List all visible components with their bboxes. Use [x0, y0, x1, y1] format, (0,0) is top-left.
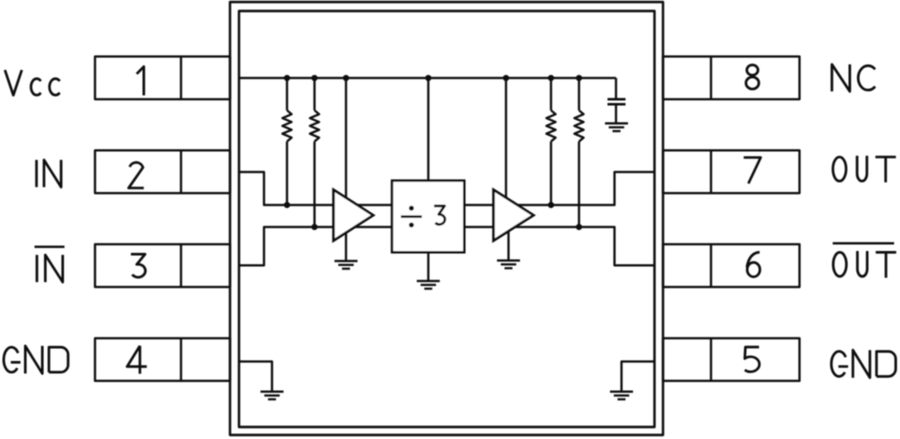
junction Vcc rail at R4 — [576, 75, 582, 81]
junction Vcc rail at R3 — [548, 75, 554, 81]
pin 7 box — [663, 150, 800, 193]
pin 2 number — [129, 162, 144, 188]
junction Vcc rail at buffer U2 — [503, 75, 509, 81]
pin 6 number — [747, 252, 760, 277]
pin 4 box — [95, 338, 230, 381]
label OUT — [833, 156, 896, 183]
wire buffer1 supply-ground drop — [345, 78, 347, 261]
wire OUT-bar path to pin 6 — [464, 227, 654, 265]
junction Vcc rail at R2 — [311, 75, 317, 81]
ground below buffer U1 — [335, 261, 358, 269]
junction Vcc rail at R1 — [284, 75, 290, 81]
ground at pin 5 — [610, 392, 633, 400]
IC package inner outline — [239, 11, 655, 427]
resistor R2 — [310, 78, 319, 227]
resistor R4 — [574, 78, 583, 227]
wire buffer2 supply drop — [505, 78, 507, 216]
junction R2 to IN-bar wire — [311, 224, 317, 230]
pin 7 number — [744, 158, 761, 184]
wire divider top drop — [427, 78, 429, 181]
junction Vcc rail at buffer U1 — [343, 75, 349, 81]
wire pin 5 ground path — [622, 362, 655, 392]
divide-by-3 block U3 — [392, 181, 464, 253]
divide sign — [401, 206, 422, 228]
ground below divider — [417, 281, 440, 289]
ground below buffer U2 — [497, 261, 520, 269]
capacitor C1 — [608, 78, 626, 123]
resistor R3 — [546, 78, 555, 205]
ground at pin 4 — [261, 392, 284, 400]
junction R3 to OUT wire — [548, 202, 554, 208]
label Vcc — [5, 70, 60, 95]
junction R4 to OUT-bar wire — [576, 224, 582, 230]
pin 8 number — [746, 65, 759, 89]
wire pin 4 ground path — [239, 362, 272, 392]
buffer U1 (input buffer triangle) — [334, 190, 374, 241]
label IN-bar — [35, 247, 65, 282]
pin 1 box — [95, 57, 230, 100]
pin 1 number — [137, 67, 144, 96]
label GND left — [4, 346, 68, 374]
wire divider bottom lead — [427, 252, 429, 281]
divide-by-3 value 3 — [434, 206, 445, 224]
wire IN path from pin 2 — [239, 172, 392, 205]
buffer U2 (output buffer triangle) — [494, 190, 534, 241]
pin 5 number — [745, 347, 760, 372]
resistor R1 — [282, 78, 291, 205]
pin 3 number — [131, 254, 146, 277]
pin 5 box — [663, 338, 800, 381]
wire Vcc rail from pin 1 — [239, 77, 616, 79]
label IN — [37, 160, 62, 187]
wire OUT path to pin 7 — [464, 172, 654, 205]
IC package outer outline — [230, 2, 663, 435]
wire buffer2 ground drop — [507, 224, 509, 261]
label NC — [832, 64, 875, 91]
wire IN-bar path from pin 3 — [239, 227, 392, 265]
ground below capacitor — [605, 123, 628, 131]
junction R1 to IN wire — [284, 202, 290, 208]
pin 3 box — [95, 244, 230, 287]
pin 6 box — [663, 244, 800, 287]
pin 2 box — [95, 150, 230, 193]
pin 8 box — [663, 57, 800, 100]
label GND right — [831, 350, 895, 378]
pin 4 number — [127, 346, 147, 374]
label OUT-bar — [833, 243, 897, 277]
junction Vcc rail at divider — [425, 75, 431, 81]
